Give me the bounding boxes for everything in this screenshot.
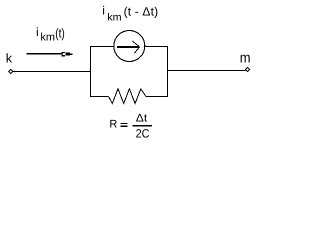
svg-text:km: km bbox=[107, 12, 122, 24]
svg-text:R: R bbox=[109, 119, 117, 131]
svg-text:i: i bbox=[36, 25, 39, 39]
svg-text:(t - Δt): (t - Δt) bbox=[124, 4, 159, 18]
svg-text:Δt: Δt bbox=[136, 113, 147, 125]
svg-text:m: m bbox=[240, 51, 251, 67]
svg-text:(t): (t) bbox=[55, 26, 65, 41]
svg-text:k: k bbox=[6, 51, 13, 66]
svg-text:i: i bbox=[102, 4, 105, 18]
svg-text:km: km bbox=[40, 32, 55, 44]
svg-text:2C: 2C bbox=[136, 126, 150, 140]
